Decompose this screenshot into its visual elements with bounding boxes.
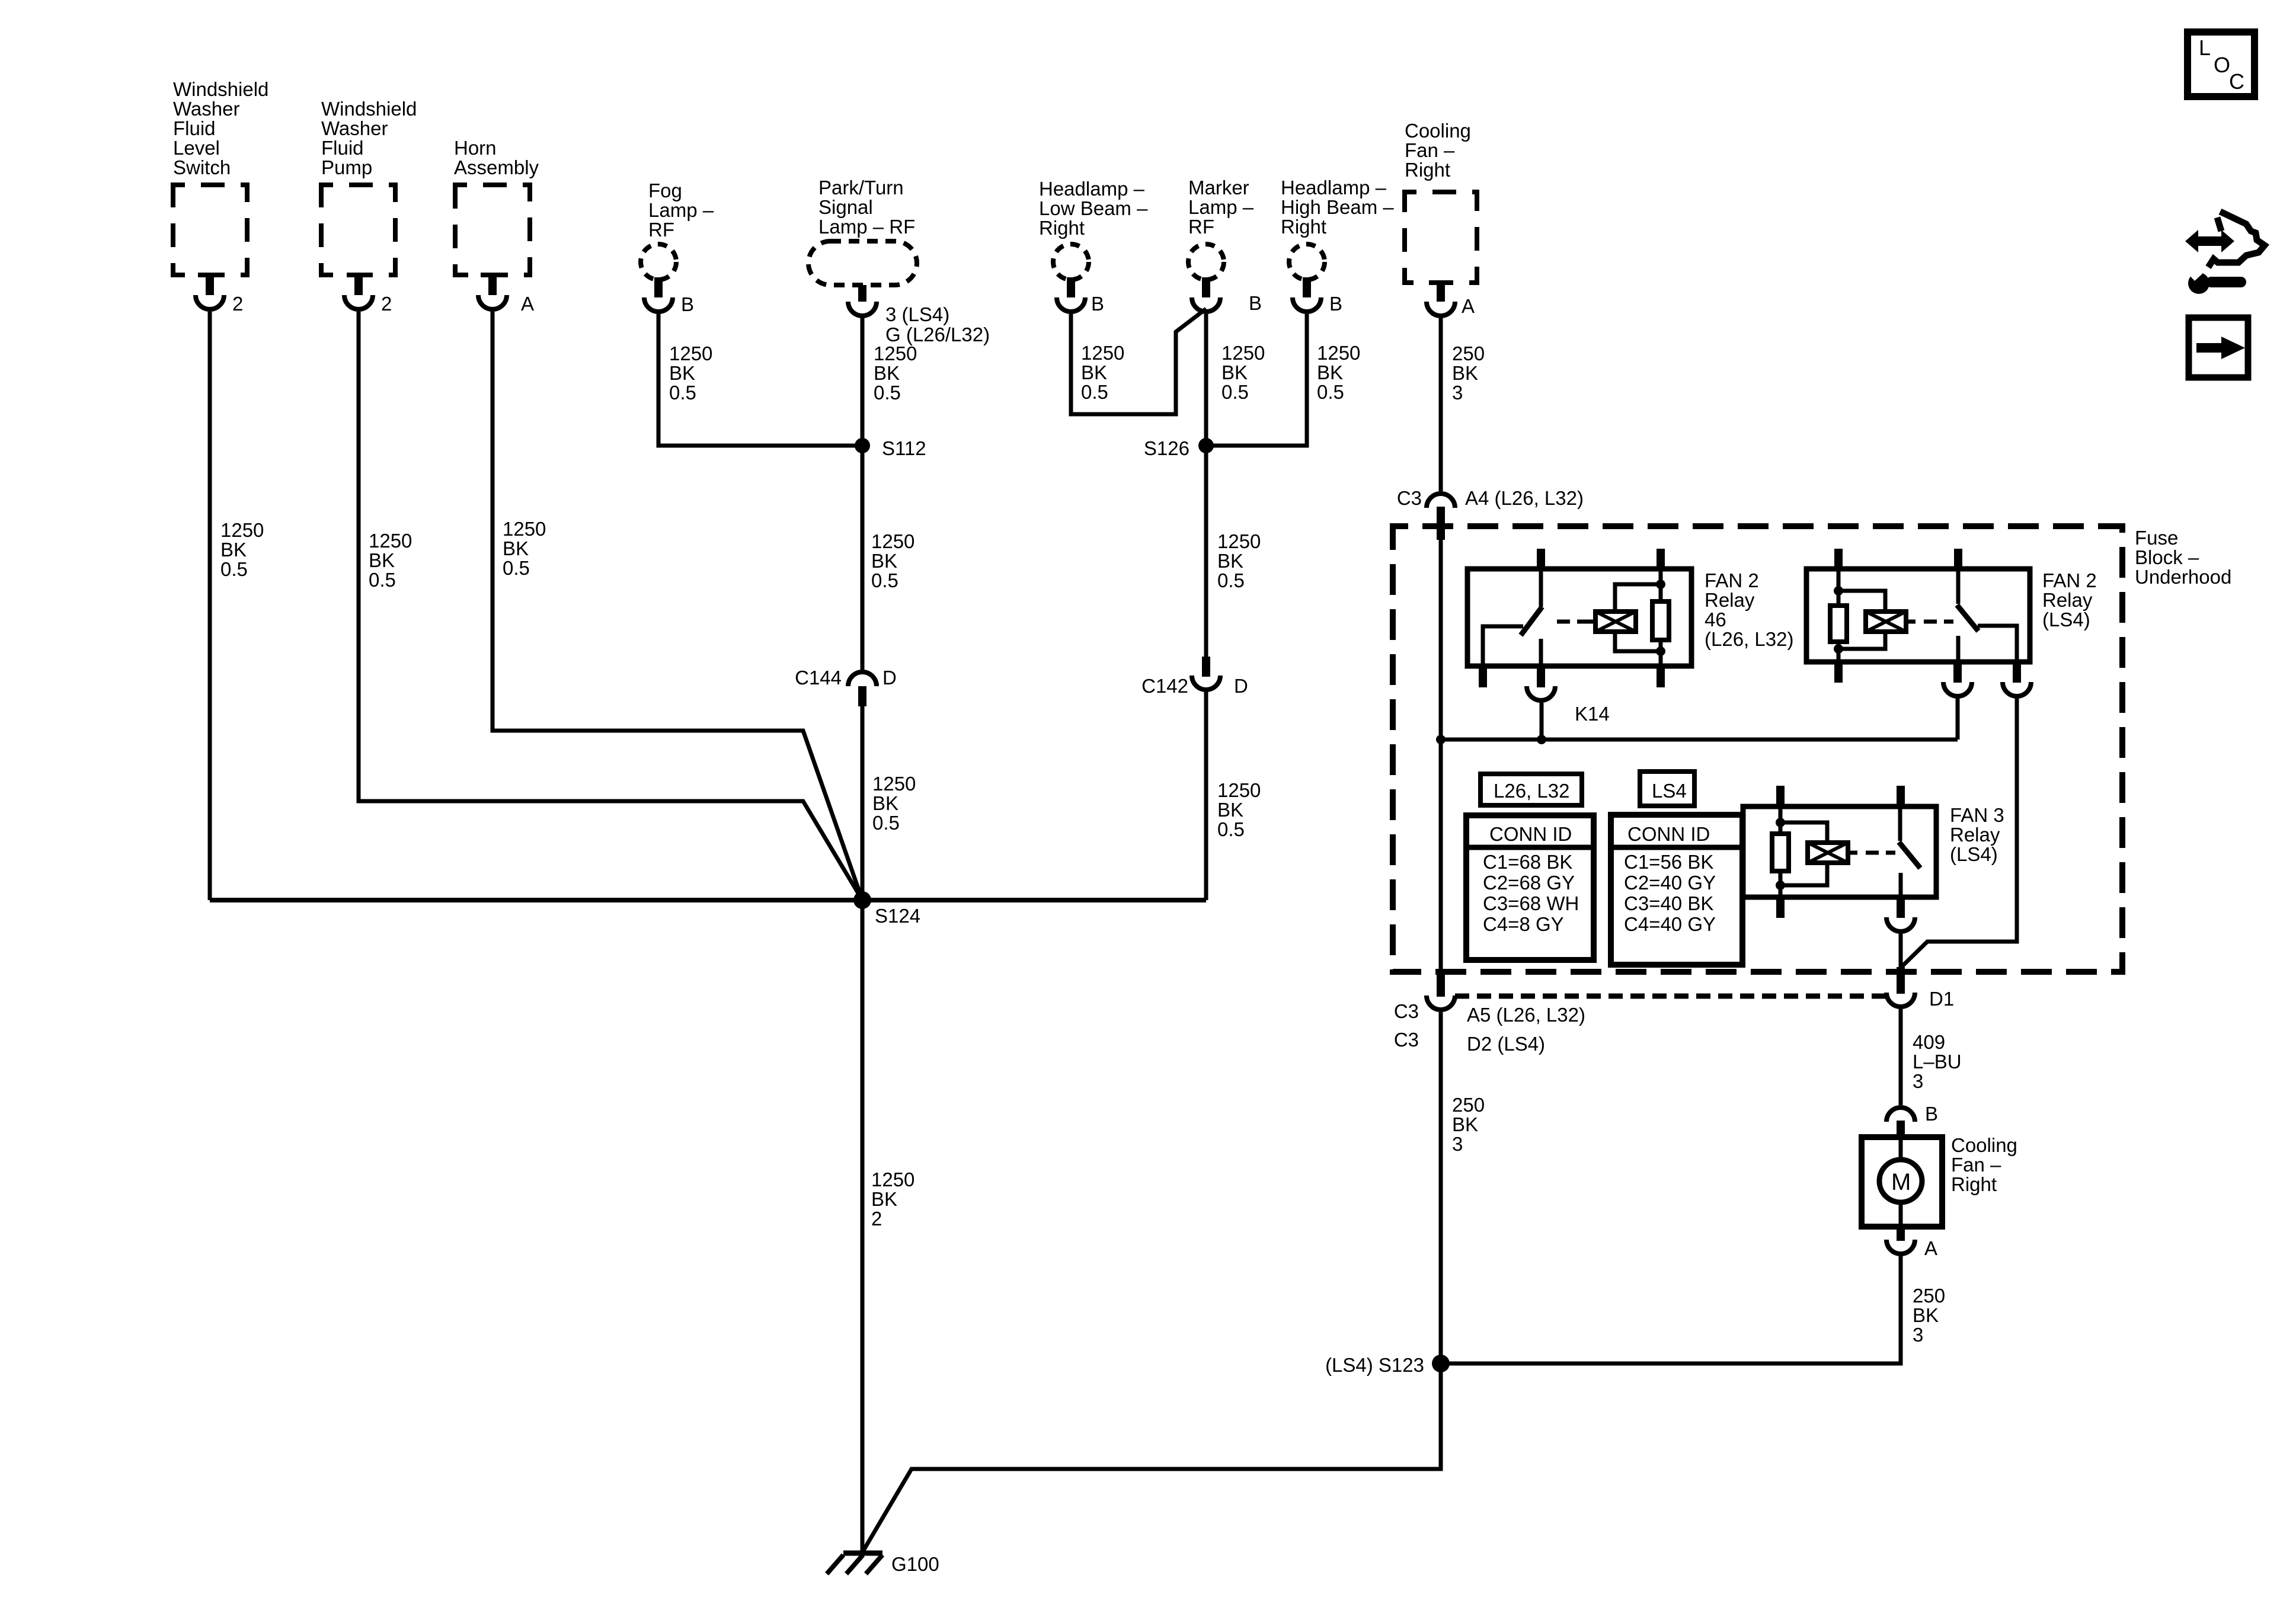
svg-text:C3=40 BK: C3=40 BK: [1624, 892, 1713, 914]
svg-text:0.5: 0.5: [871, 569, 898, 591]
svg-text:BK: BK: [1221, 361, 1248, 383]
svg-text:0.5: 0.5: [1221, 381, 1249, 403]
svg-text:2: 2: [381, 293, 392, 315]
svg-text:0.5: 0.5: [1317, 381, 1344, 403]
svg-text:Fog: Fog: [648, 180, 682, 201]
svg-text:LS4: LS4: [1652, 780, 1687, 802]
svg-text:BK: BK: [220, 539, 247, 561]
svg-text:B: B: [1329, 293, 1342, 315]
svg-text:(LS4): (LS4): [2042, 609, 2090, 630]
svg-text:Fluid: Fluid: [173, 117, 216, 139]
svg-text:FAN 2: FAN 2: [2042, 569, 2097, 591]
svg-text:0.5: 0.5: [1217, 569, 1245, 591]
svg-text:B: B: [1925, 1103, 1938, 1125]
svg-text:RF: RF: [648, 219, 674, 241]
svg-text:A: A: [521, 293, 534, 315]
svg-text:Right: Right: [1405, 159, 1450, 181]
svg-text:FAN 2: FAN 2: [1705, 569, 1759, 591]
svg-text:BK: BK: [369, 549, 395, 571]
svg-text:C1=68 BK: C1=68 BK: [1483, 851, 1572, 873]
svg-text:BK: BK: [1452, 362, 1478, 384]
svg-text:1250: 1250: [669, 343, 712, 364]
svg-text:Park/Turn: Park/Turn: [818, 177, 904, 199]
svg-text:0.5: 0.5: [872, 812, 900, 834]
svg-text:1250: 1250: [369, 530, 412, 552]
svg-text:46: 46: [1705, 609, 1726, 630]
svg-text:BK: BK: [1217, 799, 1243, 821]
svg-text:Horn: Horn: [454, 137, 497, 159]
svg-text:C2=40 GY: C2=40 GY: [1624, 872, 1716, 894]
svg-text:D2 (LS4): D2 (LS4): [1467, 1033, 1545, 1055]
svg-text:BK: BK: [871, 1188, 897, 1210]
svg-text:Low Beam –: Low Beam –: [1039, 197, 1148, 219]
svg-text:Block –: Block –: [2135, 546, 2199, 568]
svg-text:1250: 1250: [503, 518, 546, 540]
svg-text:Underhood: Underhood: [2135, 566, 2231, 588]
svg-text:BK: BK: [669, 362, 695, 384]
svg-text:Fan –: Fan –: [1405, 139, 1455, 161]
svg-text:1250: 1250: [1221, 342, 1265, 364]
svg-text:1250: 1250: [1081, 342, 1124, 364]
svg-text:0.5: 0.5: [503, 557, 530, 579]
svg-text:C3=68 WH: C3=68 WH: [1483, 892, 1579, 914]
svg-text:B: B: [1249, 292, 1262, 314]
svg-text:Washer: Washer: [173, 98, 239, 120]
svg-text:Windshield: Windshield: [321, 98, 417, 120]
svg-text:BK: BK: [1317, 361, 1343, 383]
svg-text:1250: 1250: [1217, 779, 1261, 801]
svg-text:BK: BK: [503, 537, 529, 559]
svg-text:M: M: [1891, 1169, 1911, 1195]
svg-text:0.5: 0.5: [1081, 381, 1108, 403]
svg-text:L26, L32: L26, L32: [1494, 780, 1569, 802]
svg-text:C3: C3: [1394, 1029, 1419, 1051]
svg-text:FAN 3: FAN 3: [1950, 804, 2004, 826]
svg-text:BK: BK: [1217, 550, 1243, 572]
svg-text:L–BU: L–BU: [1913, 1051, 1962, 1073]
svg-text:0.5: 0.5: [669, 382, 696, 404]
svg-text:C2=68 GY: C2=68 GY: [1483, 872, 1575, 894]
svg-text:1250: 1250: [871, 530, 914, 552]
svg-text:2: 2: [871, 1208, 882, 1230]
svg-text:B: B: [681, 293, 694, 315]
svg-text:(LS4): (LS4): [1950, 843, 1998, 865]
svg-text:S124: S124: [875, 905, 920, 927]
svg-text:250: 250: [1913, 1285, 1945, 1307]
svg-text:Fuse: Fuse: [2135, 527, 2178, 549]
svg-text:Cooling: Cooling: [1405, 120, 1471, 142]
svg-text:3 (LS4): 3 (LS4): [885, 303, 949, 325]
svg-text:G100: G100: [891, 1553, 939, 1575]
svg-text:Washer: Washer: [321, 117, 388, 139]
svg-text:BK: BK: [1452, 1113, 1478, 1135]
svg-text:Level: Level: [173, 137, 220, 159]
svg-text:1250: 1250: [874, 343, 917, 364]
svg-text:S126: S126: [1144, 437, 1189, 459]
svg-text:1250: 1250: [872, 773, 916, 795]
svg-text:Switch: Switch: [173, 156, 231, 178]
svg-text:B: B: [1091, 293, 1104, 315]
svg-text:(LS4) S123: (LS4) S123: [1325, 1354, 1424, 1376]
svg-text:Lamp –: Lamp –: [648, 199, 714, 221]
svg-text:S112: S112: [882, 437, 926, 459]
svg-text:1250: 1250: [1317, 342, 1360, 364]
svg-text:409: 409: [1913, 1031, 1945, 1053]
svg-text:BK: BK: [872, 792, 898, 814]
svg-text:1250: 1250: [220, 519, 264, 541]
svg-text:0.5: 0.5: [874, 382, 901, 404]
svg-text:C4=8 GY: C4=8 GY: [1483, 913, 1564, 935]
svg-text:C3: C3: [1394, 1000, 1419, 1022]
svg-text:C1=56 BK: C1=56 BK: [1624, 851, 1713, 873]
svg-text:BK: BK: [1913, 1304, 1939, 1326]
svg-text:1250: 1250: [871, 1169, 914, 1190]
svg-text:A: A: [1462, 295, 1475, 317]
svg-text:Fluid: Fluid: [321, 137, 364, 159]
svg-text:CONN ID: CONN ID: [1489, 823, 1572, 845]
svg-text:0.5: 0.5: [1217, 818, 1245, 840]
svg-text:(L26, L32): (L26, L32): [1705, 628, 1793, 650]
svg-text:3: 3: [1913, 1070, 1923, 1092]
svg-text:C4=40 GY: C4=40 GY: [1624, 913, 1716, 935]
svg-text:C: C: [2229, 69, 2244, 94]
svg-text:C142: C142: [1141, 675, 1188, 697]
svg-text:Right: Right: [1039, 217, 1085, 239]
svg-text:RF: RF: [1188, 216, 1214, 238]
svg-text:0.5: 0.5: [220, 558, 248, 580]
svg-text:Headlamp –: Headlamp –: [1039, 178, 1145, 200]
svg-text:Lamp –: Lamp –: [1188, 196, 1254, 218]
svg-text:3: 3: [1913, 1324, 1923, 1346]
svg-text:D: D: [882, 667, 897, 689]
svg-text:O: O: [2214, 53, 2230, 77]
svg-text:Signal: Signal: [818, 196, 873, 218]
svg-text:Cooling: Cooling: [1951, 1134, 2017, 1156]
svg-text:0.5: 0.5: [369, 569, 396, 591]
svg-text:Pump: Pump: [321, 156, 372, 178]
svg-text:250: 250: [1452, 1094, 1485, 1116]
svg-text:3: 3: [1452, 1133, 1463, 1155]
svg-text:2: 2: [232, 293, 243, 315]
svg-text:A: A: [1924, 1237, 1937, 1259]
svg-text:K14: K14: [1575, 703, 1610, 725]
svg-text:Relay: Relay: [2042, 589, 2093, 611]
svg-text:Relay: Relay: [1950, 824, 2000, 846]
svg-text:Right: Right: [1951, 1173, 1997, 1195]
svg-text:D: D: [1234, 675, 1248, 697]
svg-text:BK: BK: [1081, 361, 1107, 383]
svg-text:Headlamp –: Headlamp –: [1281, 177, 1387, 199]
svg-text:BK: BK: [874, 362, 900, 384]
svg-text:L: L: [2199, 36, 2211, 60]
svg-text:250: 250: [1452, 343, 1485, 364]
svg-text:Right: Right: [1281, 216, 1326, 238]
svg-text:1250: 1250: [1217, 530, 1261, 552]
svg-text:A4 (L26, L32): A4 (L26, L32): [1465, 487, 1584, 509]
svg-text:Assembly: Assembly: [454, 156, 539, 178]
svg-text:A5 (L26, L32): A5 (L26, L32): [1467, 1004, 1585, 1026]
svg-text:C3: C3: [1397, 487, 1422, 509]
svg-text:Marker: Marker: [1188, 177, 1249, 199]
svg-text:CONN ID: CONN ID: [1627, 823, 1710, 845]
svg-text:D1: D1: [1929, 988, 1954, 1010]
svg-text:Windshield: Windshield: [173, 78, 268, 100]
svg-text:High Beam –: High Beam –: [1281, 196, 1394, 218]
svg-text:BK: BK: [871, 550, 897, 572]
svg-text:Fan –: Fan –: [1951, 1154, 2001, 1176]
svg-text:3: 3: [1452, 382, 1463, 404]
svg-text:Relay: Relay: [1705, 589, 1755, 611]
svg-text:Lamp – RF: Lamp – RF: [818, 216, 915, 238]
svg-text:C144: C144: [795, 667, 842, 689]
